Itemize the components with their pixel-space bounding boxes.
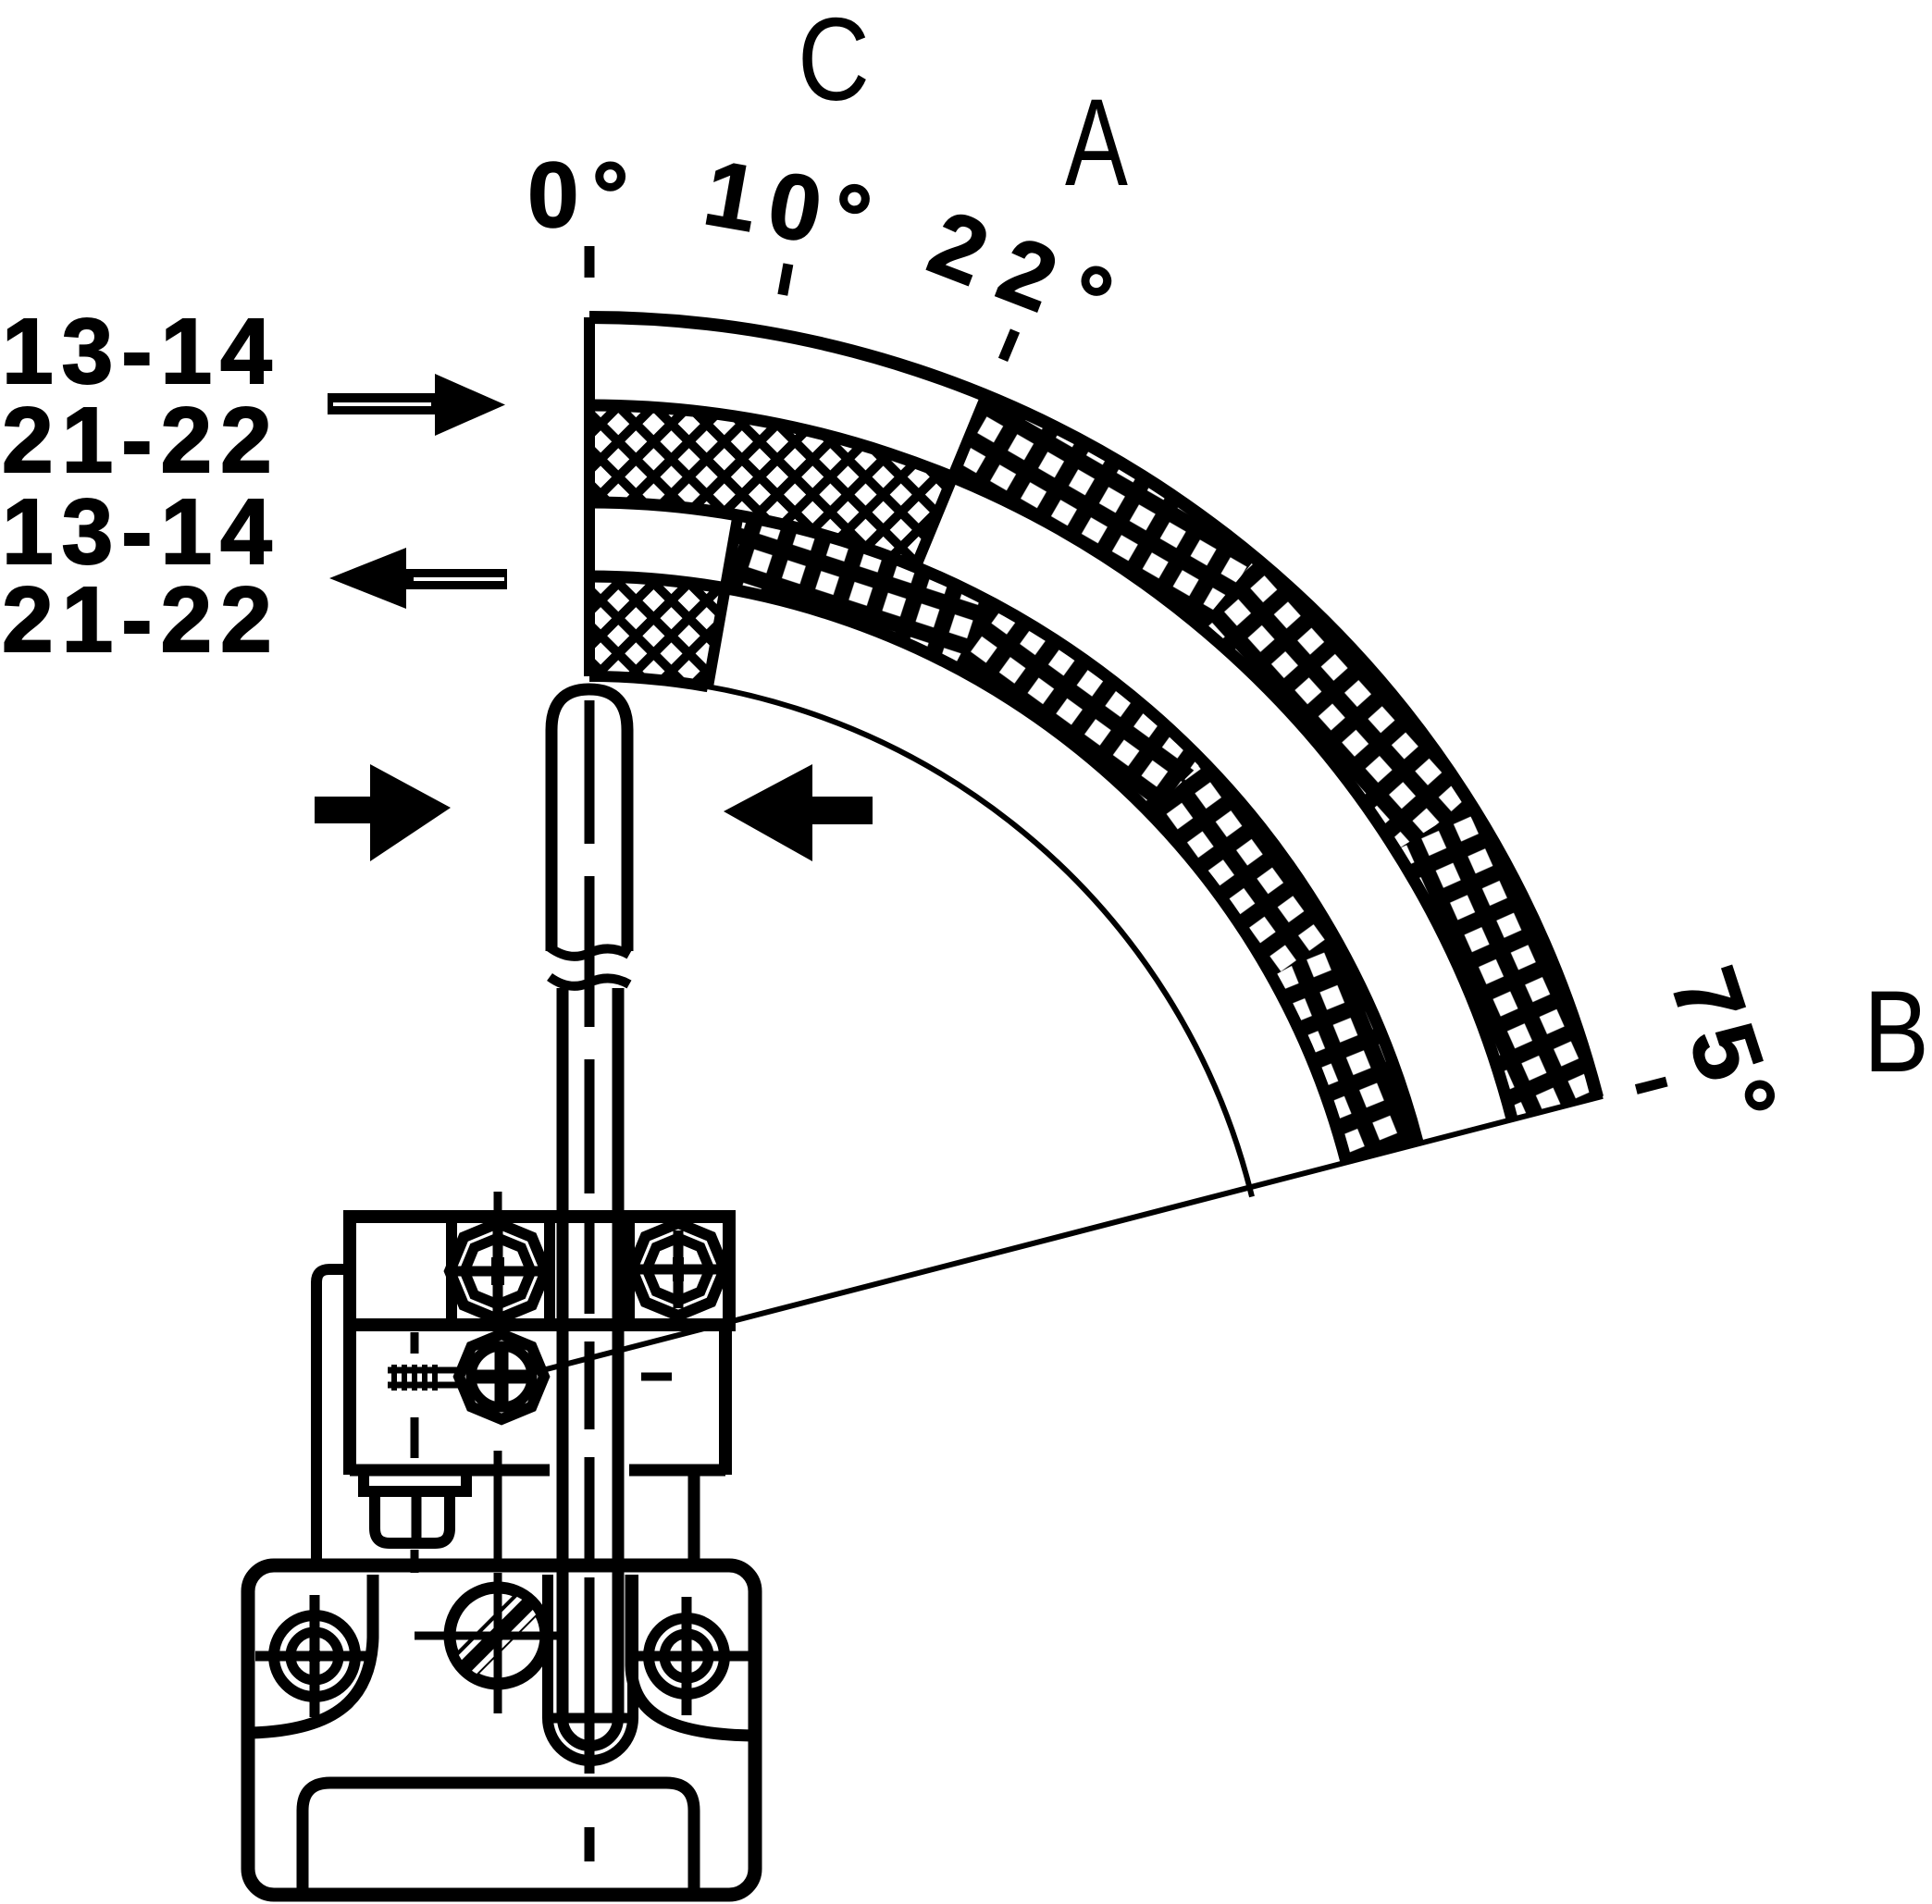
svg-text:21-22: 21-22 xyxy=(2,389,280,492)
svg-text:B: B xyxy=(1864,967,1929,1096)
svg-text:A: A xyxy=(1065,74,1128,213)
svg-text:0°: 0° xyxy=(527,143,642,247)
svg-text:C: C xyxy=(798,0,870,125)
svg-text:21-22: 21-22 xyxy=(2,568,280,672)
